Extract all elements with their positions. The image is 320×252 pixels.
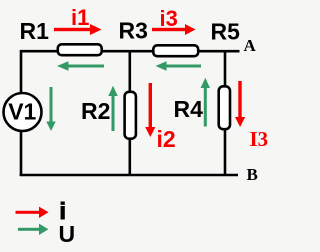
svg-text:R1: R1 — [20, 18, 50, 44]
svg-text:A: A — [244, 36, 257, 55]
svg-text:R3: R3 — [119, 18, 148, 44]
svg-text:R4: R4 — [174, 96, 204, 122]
svg-text:V1: V1 — [8, 99, 36, 125]
svg-text:i3: i3 — [160, 6, 178, 31]
svg-text:R5: R5 — [211, 19, 241, 45]
svg-text:U: U — [59, 221, 76, 247]
svg-text:R2: R2 — [81, 98, 110, 124]
svg-text:i2: i2 — [157, 126, 176, 152]
svg-text:I3: I3 — [250, 127, 269, 151]
svg-text:B: B — [247, 165, 258, 184]
svg-text:i1: i1 — [71, 5, 89, 30]
